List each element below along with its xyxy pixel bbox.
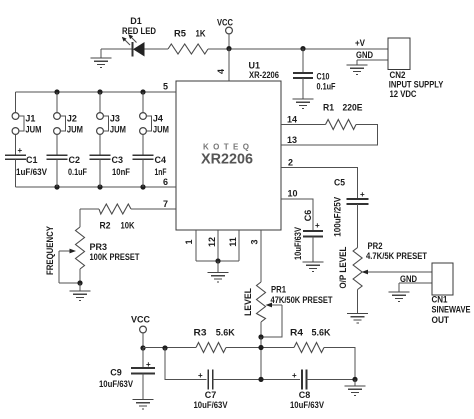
svg-text:10K: 10K bbox=[121, 221, 135, 231]
svg-text:JUM: JUM bbox=[110, 124, 126, 134]
wire R2 to PR3 bbox=[80, 209, 99, 227]
svg-text:5.6K: 5.6K bbox=[312, 328, 331, 338]
jumper J3 bbox=[97, 113, 109, 135]
svg-text:C9: C9 bbox=[110, 368, 122, 378]
resistor R1 bbox=[326, 120, 357, 130]
svg-text:4.7K/5K PRESET: 4.7K/5K PRESET bbox=[366, 251, 427, 261]
svg-text:C10: C10 bbox=[317, 72, 330, 82]
node PR3 bottom bbox=[77, 280, 82, 285]
wire top R3/R4 bbox=[143, 347, 196, 349]
svg-text:4: 4 bbox=[216, 69, 226, 74]
svg-text:OUT: OUT bbox=[432, 315, 450, 325]
wire jumper to capacitor bbox=[56, 134, 58, 155]
wire C8 to right bbox=[307, 378, 356, 380]
svg-text:C3: C3 bbox=[112, 155, 124, 165]
wire C7 to C8 bbox=[213, 378, 300, 380]
svg-text:100K PRESET: 100K PRESET bbox=[90, 252, 140, 262]
node J3 bottom bbox=[97, 184, 102, 189]
svg-text:R2: R2 bbox=[100, 221, 111, 231]
resistor R2 bbox=[99, 204, 131, 214]
wire R4 right down bbox=[324, 348, 355, 380]
svg-text:1nF: 1nF bbox=[155, 167, 167, 177]
PR3 wiper arrow bbox=[59, 249, 76, 254]
svg-text:+: + bbox=[292, 371, 297, 380]
svg-text:47K/50K PRESET: 47K/50K PRESET bbox=[271, 295, 333, 305]
VCC terminal bottom bbox=[131, 315, 151, 349]
svg-text:0.1uF: 0.1uF bbox=[68, 167, 87, 177]
PR2 wiper arrow bbox=[362, 270, 433, 275]
capacitor C6 bbox=[303, 231, 323, 262]
wire pin 1 bbox=[195, 230, 197, 261]
resistor R4 bbox=[294, 343, 324, 353]
svg-text:CN1: CN1 bbox=[432, 295, 448, 305]
wire PR1 to bottom bbox=[260, 337, 262, 379]
wire bottom bus pin 6 bbox=[16, 186, 177, 188]
VCC terminal top bbox=[217, 18, 233, 49]
svg-text:14: 14 bbox=[287, 115, 297, 125]
node J4 bottom bbox=[140, 184, 145, 189]
svg-text:O/P LEVEL: O/P LEVEL bbox=[338, 246, 348, 288]
svg-text:10nF: 10nF bbox=[112, 167, 130, 177]
wire bus to J4 bbox=[142, 92, 144, 113]
svg-text:D1: D1 bbox=[130, 16, 142, 26]
svg-text:VCC: VCC bbox=[217, 18, 233, 28]
svg-text:GND: GND bbox=[356, 50, 373, 60]
ground (CN2) bbox=[347, 65, 368, 75]
wire wiper loop PR1 bbox=[261, 305, 282, 337]
wire pin 10 bbox=[281, 199, 313, 231]
wire joining pins bbox=[196, 260, 239, 262]
svg-text:+: + bbox=[198, 371, 203, 380]
wire ground to LED bbox=[101, 48, 132, 50]
svg-text:220E: 220E bbox=[343, 103, 363, 113]
ground (CN1) bbox=[389, 292, 410, 302]
wire R1 to pin 13 bbox=[281, 125, 378, 146]
svg-text:PR3: PR3 bbox=[90, 242, 108, 252]
svg-text:C6: C6 bbox=[303, 210, 313, 222]
svg-text:5: 5 bbox=[163, 82, 168, 92]
svg-text:C8: C8 bbox=[299, 390, 311, 400]
svg-text:+: + bbox=[146, 360, 151, 369]
svg-text:+V: +V bbox=[355, 38, 365, 48]
capacitor C1 bbox=[5, 155, 26, 187]
svg-text:R5: R5 bbox=[174, 29, 186, 39]
svg-text:+: + bbox=[315, 221, 320, 230]
svg-text:PR2: PR2 bbox=[368, 241, 383, 251]
resistor R5 bbox=[168, 44, 208, 54]
node PR1 bottom bbox=[258, 334, 263, 339]
wire jumper to capacitor bbox=[142, 134, 144, 155]
jumper J2 bbox=[54, 113, 66, 135]
wire jumper to capacitor bbox=[15, 134, 17, 155]
svg-text:J1: J1 bbox=[25, 113, 35, 123]
svg-text:J3: J3 bbox=[110, 113, 120, 123]
svg-text:1K: 1K bbox=[196, 29, 206, 39]
svg-text:11: 11 bbox=[228, 237, 238, 247]
svg-text:GND: GND bbox=[400, 274, 417, 284]
PR1 wiper arrow bbox=[266, 303, 283, 308]
wire pin 11 bbox=[238, 230, 240, 261]
svg-text:10uF/63V: 10uF/63V bbox=[194, 400, 228, 410]
node J3 top bbox=[97, 89, 102, 94]
svg-text:C1: C1 bbox=[26, 155, 38, 165]
svg-text:5.6K: 5.6K bbox=[216, 328, 235, 338]
resistor R3 bbox=[196, 343, 226, 353]
svg-text:3: 3 bbox=[250, 239, 260, 244]
svg-text:10uF/63V: 10uF/63V bbox=[293, 227, 303, 260]
svg-text:LEVEL: LEVEL bbox=[243, 288, 253, 316]
node VCC bottom bbox=[140, 345, 145, 350]
ground (pins) bbox=[208, 261, 229, 282]
ground (C10) bbox=[293, 99, 314, 109]
svg-text:10uF/63V: 10uF/63V bbox=[290, 400, 324, 410]
capacitor C7 bbox=[208, 369, 213, 389]
ground (C9) bbox=[133, 400, 154, 410]
wire pin 14 bbox=[281, 124, 326, 126]
node bottom right bbox=[352, 377, 357, 382]
svg-text:JUM: JUM bbox=[153, 124, 169, 134]
svg-text:10uF/63V: 10uF/63V bbox=[99, 379, 133, 389]
svg-text:XR2206: XR2206 bbox=[201, 151, 253, 168]
capacitor C3 bbox=[90, 155, 111, 187]
svg-text:+: + bbox=[18, 146, 23, 155]
svg-text:0.1uF: 0.1uF bbox=[317, 82, 336, 92]
connector CN1 bbox=[432, 263, 453, 295]
node C10 junction bbox=[300, 46, 305, 51]
node J4 top bbox=[140, 89, 145, 94]
connector CN2 bbox=[388, 38, 410, 70]
svg-text:JUM: JUM bbox=[25, 124, 41, 134]
IC U1 XR2206 bbox=[176, 81, 281, 230]
capacitor C4 bbox=[133, 155, 154, 187]
wire pin 4 bbox=[228, 49, 230, 81]
capacitor C8 bbox=[302, 369, 307, 389]
node mid top wire bbox=[258, 345, 263, 350]
wire R5 to CN2 +V bbox=[208, 48, 388, 50]
wire jumper to capacitor bbox=[99, 134, 101, 155]
svg-text:R1: R1 bbox=[323, 103, 334, 113]
svg-text:XR-2206: XR-2206 bbox=[249, 70, 279, 80]
svg-text:FREQUENCY: FREQUENCY bbox=[45, 226, 55, 275]
svg-text:C5: C5 bbox=[334, 178, 345, 188]
wire CN1 GND bbox=[399, 283, 432, 292]
jumper J1 bbox=[12, 113, 24, 135]
capacitor C2 bbox=[47, 155, 68, 187]
svg-text:100uF/25V: 100uF/25V bbox=[333, 197, 343, 237]
svg-text:C2: C2 bbox=[69, 155, 81, 165]
svg-text:C4: C4 bbox=[155, 155, 167, 165]
ground (PR2) bbox=[347, 314, 368, 324]
node pin12 bbox=[215, 258, 220, 263]
wire bus to J2 bbox=[56, 92, 58, 113]
svg-text:13: 13 bbox=[287, 135, 297, 145]
node J2 top bbox=[54, 89, 59, 94]
svg-text:JUM: JUM bbox=[67, 124, 83, 134]
svg-text:CN2: CN2 bbox=[390, 70, 406, 80]
svg-text:U1: U1 bbox=[249, 61, 261, 71]
svg-text:PR1: PR1 bbox=[271, 285, 286, 295]
svg-text:6: 6 bbox=[163, 177, 168, 187]
jumper J4 bbox=[140, 113, 152, 135]
potentiometer PR3 bbox=[76, 227, 85, 283]
potentiometer PR2 bbox=[353, 248, 362, 314]
svg-text:J4: J4 bbox=[153, 113, 163, 123]
svg-text:RED LED: RED LED bbox=[122, 26, 156, 36]
svg-text:R3: R3 bbox=[194, 328, 207, 338]
wire branch down to C7 bbox=[165, 348, 207, 379]
wire pin 12 bbox=[217, 230, 219, 261]
svg-text:12: 12 bbox=[207, 237, 217, 247]
ground (PR3) bbox=[70, 283, 91, 301]
svg-text:1uF/63V: 1uF/63V bbox=[16, 167, 47, 177]
wire wiper loop bbox=[59, 251, 80, 283]
svg-text:J2: J2 bbox=[67, 113, 77, 123]
node J2 bottom bbox=[54, 184, 59, 189]
potentiometer PR1 bbox=[257, 282, 266, 337]
wire bus to J3 bbox=[99, 92, 101, 113]
wire top bus pin 5 bbox=[16, 91, 177, 93]
svg-text:INPUT SUPPLY: INPUT SUPPLY bbox=[389, 80, 444, 90]
wire pin 3 bbox=[260, 230, 262, 282]
wire bus to J1 bbox=[15, 92, 17, 113]
wire pin 2 bbox=[281, 168, 358, 199]
svg-text:VCC: VCC bbox=[131, 315, 151, 325]
ground (C6) bbox=[303, 262, 324, 272]
capacitor C5 bbox=[347, 199, 369, 248]
capacitor C10 bbox=[293, 49, 313, 99]
node branch bbox=[162, 345, 167, 350]
ground (LED cathode) bbox=[91, 49, 112, 68]
node bottom mid bbox=[258, 377, 263, 382]
svg-text:SINEWAVE: SINEWAVE bbox=[432, 305, 471, 315]
svg-text:10: 10 bbox=[288, 189, 298, 199]
svg-text:2: 2 bbox=[288, 158, 293, 168]
svg-text:1: 1 bbox=[184, 239, 194, 244]
svg-text:7: 7 bbox=[163, 199, 168, 209]
diode D1 RED LED bbox=[122, 34, 145, 56]
svg-text:C7: C7 bbox=[205, 390, 217, 400]
wire LED to R5 bbox=[145, 48, 169, 50]
node VCC junction bbox=[226, 46, 231, 51]
svg-text:R4: R4 bbox=[290, 328, 303, 338]
wire R3 to R4 bbox=[226, 347, 294, 349]
svg-text:+: + bbox=[360, 190, 365, 199]
capacitor C9 bbox=[131, 348, 155, 400]
wire pin 7 bbox=[131, 208, 176, 210]
ground (bottom right) bbox=[345, 379, 366, 395]
svg-text:12 VDC: 12 VDC bbox=[390, 89, 417, 99]
wire CN2 GND bbox=[357, 60, 388, 65]
